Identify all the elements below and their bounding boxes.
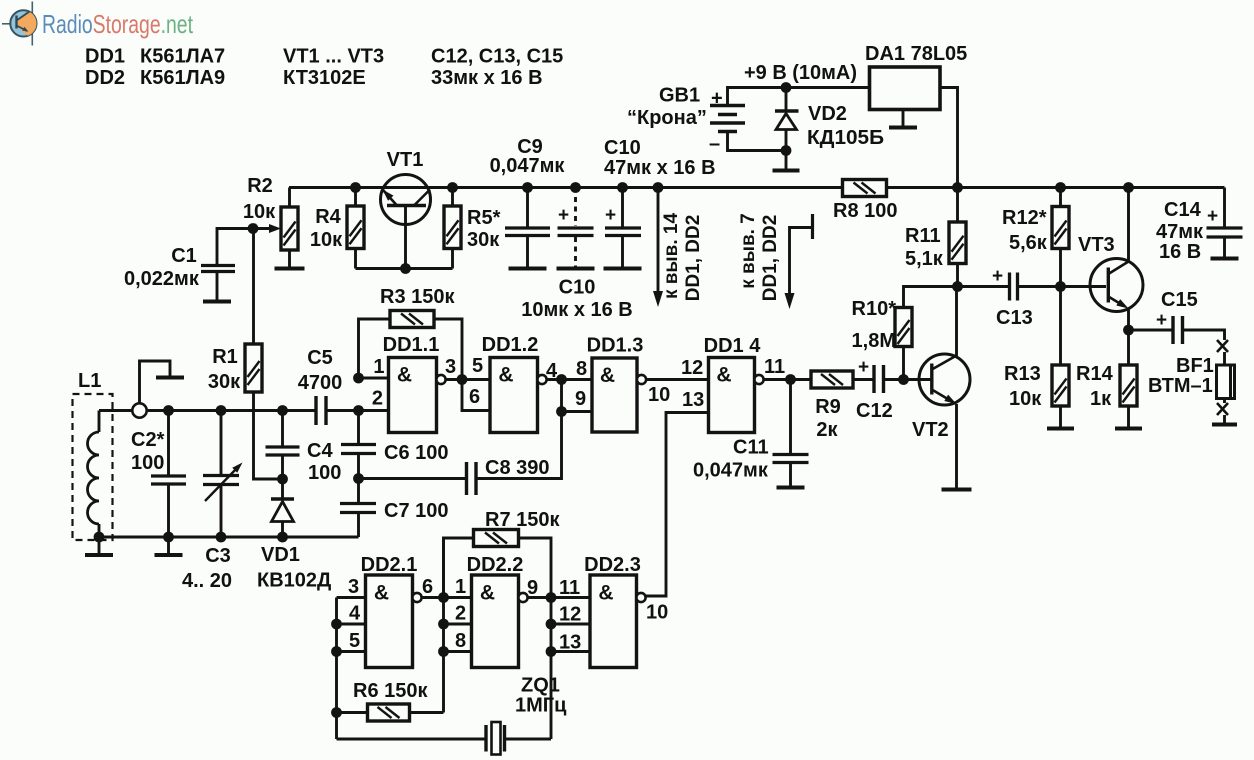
label C4	[307, 440, 341, 484]
svg-text:+: +	[1207, 206, 1218, 227]
svg-text:11: 11	[559, 577, 580, 599]
label C13 plus	[992, 266, 1003, 287]
svg-text:5,6к: 5,6к	[1009, 232, 1048, 254]
varicap VD1	[271, 479, 294, 537]
label C1 value	[124, 268, 200, 290]
node C9 top	[522, 182, 533, 193]
label C2	[131, 429, 165, 474]
svg-text:4.. 20: 4.. 20	[182, 570, 232, 592]
svg-text:DD1.2: DD1.2	[482, 334, 539, 356]
label C12 plus	[858, 357, 869, 378]
svg-text:&: &	[716, 364, 731, 387]
svg-text:КВ102Д: КВ102Д	[257, 570, 331, 592]
node DD1.1 out	[457, 374, 468, 385]
logo text	[42, 9, 194, 39]
node DD2 pin4	[331, 619, 342, 630]
parts list DD1 value	[140, 46, 225, 68]
svg-text:5: 5	[472, 355, 483, 377]
node pin2	[353, 405, 364, 416]
gate DD1.4	[709, 358, 764, 433]
node battery plus	[781, 82, 792, 93]
label VT3	[1078, 234, 1115, 256]
node pin11	[785, 374, 796, 385]
svg-text:C7 100: C7 100	[384, 500, 449, 522]
diode VD2	[775, 88, 799, 151]
pin 10 label DD2	[646, 602, 668, 624]
transistor VT1	[381, 175, 431, 269]
label R1	[212, 346, 238, 368]
pin 2 wire DD2	[444, 623, 472, 626]
node C2 bottom	[163, 532, 174, 543]
svg-text:DD1 4: DD1 4	[704, 335, 762, 357]
pin 11 label	[764, 356, 785, 378]
svg-text:1: 1	[455, 576, 466, 598]
label DD2.3	[584, 554, 641, 576]
node DD2.2 pin1	[438, 592, 449, 603]
label DD2.1	[361, 554, 418, 576]
pin 6 label DD2	[422, 576, 433, 598]
label DD1 DD2 col1	[683, 215, 704, 302]
svg-text:C12, C13, C15: C12, C13, C15	[431, 46, 563, 68]
svg-text:+: +	[711, 88, 723, 110]
label R8 100	[833, 200, 898, 222]
label k vyv 7	[738, 213, 759, 289]
svg-text:100: 100	[131, 452, 164, 474]
ground under C11	[777, 486, 805, 490]
label C3	[182, 545, 232, 592]
pin 1 label	[373, 356, 384, 378]
svg-text:DD1: DD1	[85, 46, 125, 68]
parts list DD1	[85, 46, 125, 68]
svg-text:R5*: R5*	[467, 207, 501, 229]
svg-text:R13: R13	[1004, 363, 1041, 385]
wire VT3 collector	[1127, 188, 1130, 263]
node C10 top	[570, 182, 581, 193]
resistor R3	[359, 311, 463, 380]
label ZQ1	[521, 675, 560, 697]
gate DD1.1	[389, 358, 446, 433]
svg-text:&: &	[480, 582, 495, 605]
label R7 150k	[485, 509, 560, 531]
label C14 value	[1156, 221, 1204, 263]
wire battery to DA1	[786, 86, 870, 89]
svg-text:10мк x 16 В: 10мк x 16 В	[521, 299, 633, 321]
svg-text:VT1: VT1	[387, 149, 424, 171]
wire pin10 pin12	[646, 378, 708, 381]
ground under L1	[85, 537, 113, 555]
svg-text:+9 В (10мА): +9 В (10мА)	[744, 62, 857, 84]
svg-text:10к: 10к	[243, 201, 276, 223]
node DD2 pin5	[331, 646, 342, 657]
antenna terminal	[132, 361, 184, 418]
wire DA1 output	[940, 88, 958, 188]
node C4 top	[277, 405, 288, 416]
wire C8 tap	[560, 380, 563, 412]
node VD1 bottom	[277, 532, 288, 543]
svg-text:13: 13	[682, 389, 704, 411]
svg-text:&: &	[600, 364, 615, 387]
label C5	[298, 347, 343, 394]
svg-text:0,022мк: 0,022мк	[124, 268, 200, 290]
capacitor C15	[1129, 316, 1225, 344]
svg-text:КД105Б: КД105Б	[807, 127, 884, 149]
label R3 150k	[380, 286, 455, 308]
node pin1	[353, 373, 364, 384]
capacitor C2	[151, 411, 186, 538]
label R12	[1002, 207, 1048, 254]
svg-text:+: +	[605, 205, 616, 226]
node DD2 pin8	[438, 646, 449, 657]
svg-text:R6 150к: R6 150к	[353, 680, 428, 702]
node R12 top	[1055, 182, 1066, 193]
label R1 value	[208, 371, 241, 393]
pin 5 label DD2	[349, 630, 360, 652]
svg-text:VT1 ... VT3: VT1 ... VT3	[283, 46, 384, 68]
svg-text:VD2: VD2	[808, 103, 847, 125]
capacitor C4	[266, 411, 300, 480]
pin 12 label DD2	[559, 604, 581, 626]
wire VT2 emitter	[955, 404, 958, 488]
label KD105B	[807, 127, 884, 149]
svg-text:1: 1	[373, 356, 384, 378]
ground under VD2	[773, 151, 800, 171]
svg-text:DD2.1: DD2.1	[361, 554, 418, 576]
svg-text:&: &	[397, 364, 412, 387]
svg-text:8: 8	[576, 358, 587, 380]
node R6 left	[331, 707, 342, 718]
svg-text:DD2: DD2	[85, 67, 125, 89]
label C8 390	[485, 457, 550, 479]
capacitor C7	[340, 504, 376, 513]
label C11	[733, 437, 769, 459]
parts list 33mk	[431, 67, 543, 89]
label C13	[996, 307, 1033, 329]
svg-text:C3: C3	[205, 545, 231, 567]
label VD2	[808, 103, 847, 125]
capacitor C6	[341, 445, 376, 454]
capacitor C9	[505, 188, 550, 268]
resistor R8	[843, 180, 887, 197]
label VD1	[257, 544, 331, 592]
gate DD2.2	[472, 575, 528, 668]
label R4	[310, 206, 343, 251]
ground under BF1	[1212, 423, 1237, 427]
sounder BF1	[1217, 340, 1235, 424]
resistor R11	[949, 188, 966, 287]
svg-text:12: 12	[559, 604, 581, 626]
pin 4 wire	[337, 623, 366, 626]
wire main input line	[99, 409, 316, 412]
svg-text:C10: C10	[604, 137, 641, 159]
wire DD2 mid bus	[442, 538, 445, 713]
label C15	[1161, 289, 1198, 311]
pin 11 label DD2	[559, 577, 580, 599]
svg-text:DD2.2: DD2.2	[467, 554, 524, 576]
svg-text:2: 2	[372, 388, 383, 410]
svg-text:C1: C1	[171, 245, 197, 267]
label C10 top	[604, 137, 641, 159]
svg-text:L1: L1	[78, 370, 101, 392]
svg-text:C4: C4	[307, 440, 333, 462]
svg-text:VT3: VT3	[1078, 234, 1115, 256]
node arrow pin14	[653, 182, 664, 193]
capacitor C10b electrolytic	[605, 188, 641, 268]
pin 13 label	[682, 389, 704, 411]
svg-text:К561ЛА9: К561ЛА9	[140, 67, 225, 89]
wire VT3 emitter	[1127, 309, 1130, 331]
wire tank bottom rail	[99, 536, 359, 539]
wire VT3 base	[1061, 285, 1107, 288]
pin 9 label	[575, 388, 586, 410]
svg-text:R12*: R12*	[1002, 207, 1047, 229]
label R5	[467, 207, 501, 251]
pin 4 label	[349, 603, 361, 625]
gate DD1.3	[592, 358, 646, 432]
label C14 plus	[1207, 206, 1218, 227]
ground under C10b	[604, 267, 642, 271]
wire pin4 pin8	[547, 378, 592, 381]
pin 6 label	[469, 386, 480, 408]
label R2 value	[243, 201, 276, 223]
label DD1.1	[383, 334, 440, 356]
capacitor C8	[359, 412, 562, 496]
resistor R10	[895, 287, 958, 380]
svg-text:0,047мк: 0,047мк	[693, 460, 769, 482]
svg-text:R8 100: R8 100	[833, 200, 898, 222]
svg-text:C12: C12	[856, 400, 893, 422]
label C9	[517, 136, 543, 158]
wire pin11	[764, 378, 811, 381]
label C10 bottom	[559, 277, 596, 299]
label R11	[905, 225, 944, 270]
node R4 top	[350, 182, 361, 193]
wire gate bus x358	[357, 411, 360, 538]
capacitor C11	[773, 380, 809, 487]
svg-text:1МГц: 1МГц	[515, 695, 567, 717]
pin 10 label	[648, 384, 670, 406]
node C4 bottom	[277, 474, 288, 485]
pin 5 wire	[337, 650, 366, 653]
gate DD2.3	[590, 575, 646, 668]
svg-text:0,047мк: 0,047мк	[490, 155, 566, 177]
pin 4 label	[546, 360, 558, 382]
svg-text:“Крона”: “Крона”	[627, 107, 707, 129]
resistor R1	[245, 229, 283, 480]
node R11 bottom	[952, 281, 963, 292]
svg-text:C5: C5	[307, 347, 333, 369]
svg-text:R2: R2	[247, 175, 273, 197]
ground under C10 dashed	[557, 267, 595, 271]
node R2 wiper	[248, 223, 259, 234]
svg-text:2: 2	[455, 603, 466, 625]
pin 2 wire	[359, 409, 389, 412]
svg-text:4: 4	[349, 603, 361, 625]
svg-text:GB1: GB1	[659, 85, 700, 107]
svg-text:C11: C11	[733, 437, 769, 459]
resistor R2 trimmer	[253, 188, 298, 268]
ground pin DA1	[889, 110, 917, 128]
parts list DD2	[85, 67, 125, 89]
svg-text:ZQ1: ZQ1	[521, 675, 560, 697]
resistor R5	[444, 188, 461, 269]
wire pin3	[446, 378, 490, 381]
label R13	[1004, 363, 1042, 410]
ground under R13	[1047, 427, 1074, 431]
ground under C1	[203, 300, 231, 304]
svg-text:11: 11	[764, 356, 785, 378]
capacitor C5	[316, 396, 359, 425]
svg-text:30к: 30к	[208, 371, 241, 393]
gate DD2.1	[366, 575, 422, 668]
svg-text:33мк x 16 В: 33мк x 16 В	[431, 67, 543, 89]
label BF1	[1176, 355, 1214, 377]
svg-text:RadioStorage.net: RadioStorage.net	[42, 9, 194, 39]
regulator DA1	[870, 67, 941, 110]
pin 8 wire DD2	[444, 650, 472, 653]
svg-text:12: 12	[681, 357, 703, 379]
pin 12 label	[681, 357, 703, 379]
node R10 bottom	[898, 374, 909, 385]
wire DD2 right bus	[550, 598, 553, 740]
wire DD2 left bus	[335, 598, 338, 740]
svg-text:DD1, DD2: DD1, DD2	[683, 215, 704, 302]
label C6 100	[384, 442, 449, 464]
svg-text:R10*: R10*	[852, 298, 897, 320]
label C14	[1164, 199, 1202, 221]
ground under C2	[155, 537, 183, 555]
label DD1.4	[704, 335, 762, 357]
svg-text:30к: 30к	[467, 229, 500, 251]
svg-text:10: 10	[646, 602, 668, 624]
label C7 100	[384, 500, 449, 522]
svg-text:VT2: VT2	[912, 419, 949, 441]
svg-text:1,8М: 1,8М	[852, 330, 896, 352]
svg-text:5,1к: 5,1к	[905, 248, 944, 270]
label C11 value	[693, 460, 769, 482]
pin 8 label	[576, 358, 587, 380]
svg-text:&: &	[598, 582, 613, 605]
label C10 top value	[604, 157, 716, 179]
arrow to pin 7 DD1 DD2	[785, 214, 813, 309]
svg-text:R4: R4	[315, 206, 341, 228]
wire DD2.2 out	[528, 596, 590, 599]
label R14	[1076, 363, 1114, 410]
capacitor C14	[1207, 188, 1243, 258]
label R2	[247, 175, 273, 197]
ground under C14	[1211, 257, 1239, 261]
svg-text:+: +	[558, 205, 569, 226]
svg-text:к выв. 7: к выв. 7	[738, 213, 759, 289]
svg-text:R11: R11	[905, 225, 941, 247]
label Krona	[627, 107, 707, 129]
node DD2 pin2	[438, 619, 449, 630]
svg-text:47мк x 16 В: 47мк x 16 В	[604, 157, 716, 179]
svg-text:DA1 78L05: DA1 78L05	[865, 43, 967, 65]
svg-text:C13: C13	[996, 307, 1033, 329]
pin 3 label	[348, 576, 359, 598]
label DD1 DD2 col2	[760, 215, 781, 302]
svg-text:R9: R9	[815, 396, 841, 418]
label R6 150k	[353, 680, 428, 702]
svg-text:100: 100	[308, 462, 341, 484]
resistor R7	[444, 530, 552, 599]
label DD1.3	[587, 335, 644, 357]
parts list DD2 value	[140, 67, 225, 89]
pin 13 wire	[646, 413, 709, 597]
parts list C12 C13 C15	[431, 46, 563, 68]
node DA1 out on rail	[952, 182, 963, 193]
svg-text:C14: C14	[1164, 199, 1202, 221]
svg-text:C6 100: C6 100	[384, 442, 449, 464]
wire VT1 emitter bus	[356, 267, 453, 270]
svg-text:DD2.3: DD2.3	[584, 554, 641, 576]
label VT2	[912, 419, 949, 441]
ground under R14	[1115, 427, 1142, 431]
pin 3 label	[445, 356, 456, 378]
svg-text:3: 3	[445, 356, 456, 378]
transistor VT3	[1090, 259, 1143, 312]
node DD2 pin12	[546, 619, 557, 630]
svg-text:10: 10	[648, 384, 670, 406]
ground under R2	[275, 267, 305, 271]
parts list VT1-VT3	[283, 46, 384, 68]
wire DD2.1 out	[422, 596, 472, 599]
svg-text:&: &	[374, 582, 389, 605]
svg-text:6: 6	[469, 386, 480, 408]
crystal ZQ1	[337, 722, 552, 755]
node C3 top	[216, 405, 227, 416]
resistor R6	[337, 704, 444, 721]
trimmer capacitor C3	[203, 411, 243, 538]
svg-text:&: &	[498, 364, 513, 387]
svg-text:ВТМ–1: ВТМ–1	[1148, 375, 1213, 397]
label VT1	[387, 149, 424, 171]
svg-text:к выв. 14: к выв. 14	[661, 213, 682, 299]
svg-text:9: 9	[527, 577, 538, 599]
svg-text:2к: 2к	[816, 419, 838, 441]
node R12 bottom	[1055, 281, 1066, 292]
node C10b top	[617, 182, 628, 193]
svg-text:C10: C10	[559, 277, 596, 299]
wire +5V rail	[289, 186, 1225, 189]
label DD1.2	[482, 334, 539, 356]
svg-text:–: –	[709, 133, 720, 155]
svg-text:DD1.3: DD1.3	[587, 335, 644, 357]
node VT3 emitter	[1123, 325, 1134, 336]
pin 1 label DD2	[455, 576, 466, 598]
svg-text:10к: 10к	[1009, 388, 1042, 410]
node pin9 junction	[556, 406, 567, 417]
label R9	[815, 396, 841, 441]
label 1MHz	[515, 695, 567, 717]
svg-text:КТ3102Е: КТ3102Е	[283, 67, 366, 89]
logo RadioStorage.net	[2, 2, 37, 46]
svg-text:+: +	[1156, 310, 1167, 331]
svg-text:DD1, DD2: DD1, DD2	[760, 215, 781, 302]
label C12	[856, 400, 893, 422]
resistor R13	[1052, 287, 1069, 428]
svg-text:+: +	[992, 266, 1003, 287]
label +9V	[744, 62, 857, 84]
capacitor C13	[958, 273, 1061, 301]
label C1	[171, 245, 197, 267]
pin 9 label DD2	[527, 577, 538, 599]
svg-text:C15: C15	[1161, 289, 1198, 311]
svg-text:4700: 4700	[298, 372, 343, 394]
resistor R9	[811, 371, 873, 388]
svg-text:47мк: 47мк	[1156, 221, 1204, 243]
pin 3 wire	[337, 596, 366, 599]
